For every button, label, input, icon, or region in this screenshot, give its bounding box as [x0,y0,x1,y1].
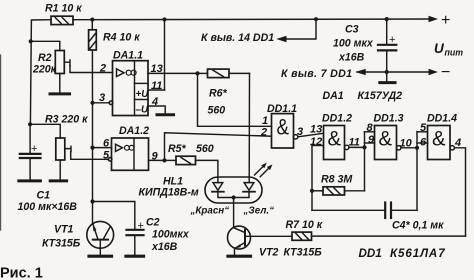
svg-text:13: 13 [151,63,163,75]
wire minus rail [357,71,429,73]
svg-text:8: 8 [367,122,374,134]
ground under VT1 [89,255,112,258]
ground under R2 [50,92,70,95]
svg-text:–U: –U [136,105,149,116]
wire to R3 top [30,124,60,138]
node junction K vyv 14 branch [314,17,318,21]
transistor VT1 [87,221,114,254]
node DD1.4 output bubble [450,146,454,150]
wire down to VT1 [92,202,94,224]
node VT1/C2 junction [90,199,94,203]
wire R7 right to DD1.4 output vertical [312,235,466,237]
svg-text:R8 3М: R8 3М [321,174,353,186]
svg-text:2: 2 [99,63,106,75]
transistor VT2 [228,226,251,255]
ground under C1 [19,179,41,182]
svg-text:1: 1 [262,115,268,127]
svg-text:DA1.2: DA1.2 [119,125,149,137]
svg-text:2: 2 [260,127,267,139]
svg-text:4: 4 [454,137,461,149]
wire HL1 cathode down to VT2 [233,198,235,228]
node R3/C1 branch [28,122,32,126]
svg-text:VT2: VT2 [259,247,279,259]
svg-text:С3: С3 [345,24,359,36]
svg-text:С4* 0,1 мк: С4* 0,1 мк [392,220,444,232]
svg-text:&: & [328,128,342,151]
node R6 left junction [195,71,199,75]
svg-text:+U: +U [136,89,150,100]
svg-text:КТ315Б: КТ315Б [42,238,81,250]
wire pin13 lead [148,72,198,74]
svg-text:11: 11 [349,137,360,149]
wire pin4 lead to ground [148,106,165,113]
resistor R7 [292,232,312,240]
wire tie vertical DD1.3 inputs down to R8 [364,132,366,191]
wire pin12 vertical down to bottom wire [311,146,313,211]
svg-text:5: 5 [103,150,110,162]
wire R5 to HL1 left anode [196,160,218,182]
node pin3 junction [90,101,94,105]
capacitor C4 [312,203,417,219]
svg-text:100 мкх: 100 мкх [333,38,374,50]
svg-text:R6*: R6* [209,88,228,100]
resistor R2 trimmer [55,51,70,74]
node R8 left junction [310,189,314,193]
svg-text:&: & [277,115,290,140]
node pin6 junction [90,146,94,150]
svg-text:3: 3 [99,92,105,104]
svg-text:100 мк×16В: 100 мк×16В [18,201,78,213]
resistor R8 [312,187,365,195]
ground under C3 [380,81,395,84]
resistor R6 [198,69,250,78]
node C3 bottom minus rail [385,70,389,74]
wire top rail left segment with left rail down [30,20,51,125]
svg-text:U: U [434,41,445,56]
svg-text:„Зел.“: „Зел.“ [243,206,275,217]
diode HL1 red [212,183,224,192]
svg-text:&: & [379,128,393,151]
svg-text:К561ЛА7: К561ЛА7 [390,247,446,260]
ground under pin4 [157,113,174,116]
wire R3 bottom to ground [59,160,61,180]
svg-text:DA1: DA1 [323,90,344,102]
wire to R2 top [31,41,60,50]
svg-text:К выв. 14 DD1: К выв. 14 DD1 [201,32,274,44]
svg-text:х16В: х16В [338,52,365,64]
diode HL1 green [243,183,255,192]
svg-text:С1: С1 [37,190,51,202]
node junction +U vertical top [162,17,166,21]
ground under VT2 [228,255,251,258]
svg-text:С2: С2 [146,217,160,229]
svg-text:К157УД2: К157УД2 [358,90,403,102]
wire tie vertical DD1.4 inputs down to C4 [416,132,418,211]
wire VT2 base lead [245,235,292,237]
wire pin11 lead [148,89,165,91]
resistor R1 [51,16,73,24]
svg-text:DA1.1: DA1.1 [113,50,143,62]
node pin3 inverting bubble DA1.1 [109,101,113,105]
wire pin9 output lead [149,159,165,161]
wire DD1.4 pin5 lead [417,131,428,133]
resistor R5 [165,156,196,164]
wire DD1.4 pin6 lead [417,142,428,144]
wire vertical pin3 node to pin6 node [92,103,94,148]
svg-text:+: + [138,220,144,232]
svg-text:DD1.2: DD1.2 [322,113,352,125]
wire K vyv 14 branch with arrow [276,19,316,42]
op-amp DA1.1 [113,61,149,116]
wire top rail right of R1 to plus arrow [73,18,429,21]
svg-text:10: 10 [400,138,413,150]
gate DD1.4 [428,126,451,160]
svg-text:6: 6 [103,138,110,150]
svg-text:6: 6 [420,137,427,149]
wire R4 bottom down to pin3 node [91,50,93,103]
capacitor C2 [127,230,144,255]
svg-text:К выв. 7 DD1: К выв. 7 DD1 [281,68,352,80]
ground under C2 [126,255,144,258]
svg-text:R1 10 к: R1 10 к [45,3,82,15]
svg-text:&: & [432,128,446,151]
svg-text:пит: пит [445,48,464,58]
svg-text:5: 5 [420,122,427,134]
wire R6 right down to HL1 right anode [248,73,250,182]
svg-text:КИПД18В-м: КИПД18В-м [139,186,199,198]
svg-text:DD1.3: DD1.3 [374,113,404,125]
svg-text:„Красн“: „Красн“ [190,206,230,217]
op-amp DA1.2 [112,138,149,170]
svg-text:DD1.4: DD1.4 [427,113,457,125]
ground under R3 [50,179,66,182]
svg-text:+: + [31,143,37,155]
svg-text:12: 12 [310,136,322,148]
svg-text:100мкх: 100мкх [152,229,190,241]
arrows light emission [255,163,273,177]
node DD1.3 output bubble [397,146,401,150]
svg-text:х16В: х16В [151,241,178,253]
wire plus rail arrow [429,16,439,22]
wire pin6 lead [93,147,112,149]
node pin9 junction [162,158,166,162]
svg-text:+: + [441,12,450,29]
svg-text:КТ315Б: КТ315Б [284,247,323,259]
wire R2 wiper down to pin2 wire [70,66,113,73]
svg-text:DD1.1: DD1.1 [267,103,297,115]
wire DD1.3 out to node [401,147,417,149]
wire R6 left down to DD1.1 pin1 [198,73,272,126]
node HL1 cathode junction [232,195,236,199]
svg-text:11: 11 [151,80,162,92]
wire DD1.3 pin8 lead [365,131,375,133]
wire pin9 up and right to DD1.1 pin2 [165,133,272,161]
scan edge artifact left [0,55,2,230]
wire C2 branch [93,202,135,230]
svg-text:+: + [389,34,395,46]
node DD1.1 output bubble [293,135,297,139]
capacitor C3 [378,19,396,72]
svg-text:R2: R2 [38,52,52,64]
node R2 branch [29,39,33,43]
svg-text:9: 9 [368,134,375,146]
node junction C3 top [385,17,389,21]
svg-text:560: 560 [208,105,226,117]
svg-text:Рис. 1: Рис. 1 [0,266,43,280]
svg-text:R5*: R5* [168,143,187,155]
wire R3 wiper to pin5 [71,152,109,160]
svg-text:R7 10 к: R7 10 к [286,219,323,231]
wire minus rail left arrow to K vyv 7 [356,69,366,76]
wire vertical pin6 node to VT1 node [92,148,94,202]
node DD1.2 out junction [362,145,366,149]
svg-text:R4 10 к: R4 10 к [103,32,140,44]
LED HL1 dual package [205,177,262,203]
svg-text:3: 3 [297,126,303,138]
node pin5 inverting bubble DA1.2 [108,158,112,162]
svg-text:13: 13 [310,124,322,136]
gate DD1.2 [324,126,345,160]
wire +U vertical from rail [164,20,166,91]
wire pin3 lead [93,102,110,104]
gate DD1.1 [272,114,294,148]
svg-text:4: 4 [151,96,158,108]
wire DD1.4 out right and down [454,148,465,236]
svg-text:9: 9 [152,151,159,163]
resistor R4 [89,20,97,50]
svg-text:560: 560 [196,143,214,155]
wire C3 ground stub [386,72,388,82]
wire DD1.1 out to DD1.2 pin13 [298,133,324,137]
capacitor C1 [20,124,41,179]
svg-text:−: − [441,64,450,81]
wire R2 bottom to ground [59,74,61,93]
node DD1.3 out junction [415,146,419,150]
svg-text:220к: 220к [32,64,57,76]
svg-text:DD1: DD1 [359,247,382,260]
wire DD1.2 out to node [349,146,365,148]
wire minus rail right arrow [429,69,439,75]
wire DD1.3 pin9 lead [365,142,375,144]
svg-text:VT1: VT1 [54,224,74,236]
node junction R4 top [90,18,94,22]
gate DD1.3 [375,126,397,160]
wire HL1 cathodes join [218,192,249,198]
svg-text:R3 220 к: R3 220 к [45,114,88,126]
wire pin12 lead [312,145,324,147]
node DD1.2 output bubble [345,145,349,149]
resistor R3 trimmer [56,138,71,160]
